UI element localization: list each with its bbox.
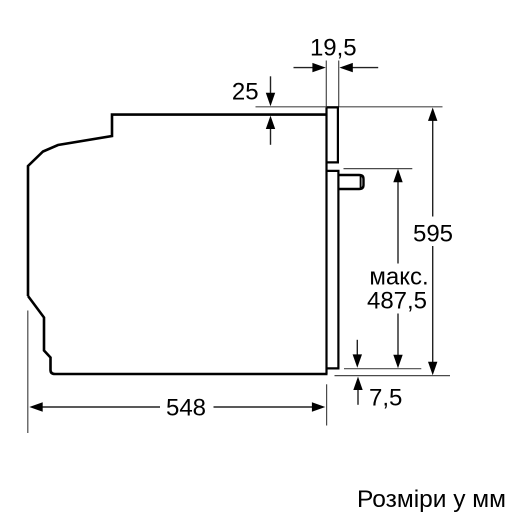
- svg-text:Розміри у мм: Розміри у мм: [357, 486, 506, 512]
- svg-text:487,5: 487,5: [367, 288, 427, 315]
- svg-text:25: 25: [232, 79, 259, 106]
- svg-text:19,5: 19,5: [310, 35, 357, 62]
- svg-text:макс.: макс.: [369, 263, 428, 290]
- svg-text:548: 548: [166, 395, 206, 422]
- svg-text:7,5: 7,5: [369, 384, 402, 411]
- svg-text:595: 595: [413, 220, 453, 247]
